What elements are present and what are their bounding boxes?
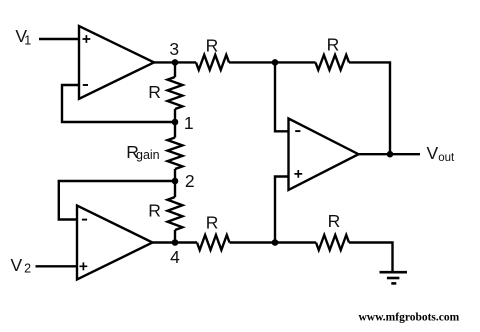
svg-text:R: R xyxy=(148,82,161,102)
svg-text:4: 4 xyxy=(170,247,180,267)
svg-text:1: 1 xyxy=(24,33,31,47)
svg-text:2: 2 xyxy=(185,171,195,191)
svg-text:V: V xyxy=(427,143,439,163)
svg-text:www.mfgrobots.com: www.mfgrobots.com xyxy=(359,311,460,323)
svg-text:R: R xyxy=(327,35,340,55)
svg-text:2: 2 xyxy=(24,261,31,275)
svg-text:V: V xyxy=(11,255,23,275)
svg-text:out: out xyxy=(438,152,455,164)
svg-text:R: R xyxy=(148,201,161,221)
svg-text:R: R xyxy=(328,211,341,231)
svg-text:3: 3 xyxy=(169,39,179,59)
svg-text:R: R xyxy=(206,212,219,232)
svg-text:1: 1 xyxy=(184,113,194,133)
svg-text:gain: gain xyxy=(136,148,160,162)
svg-text:R: R xyxy=(206,35,219,55)
